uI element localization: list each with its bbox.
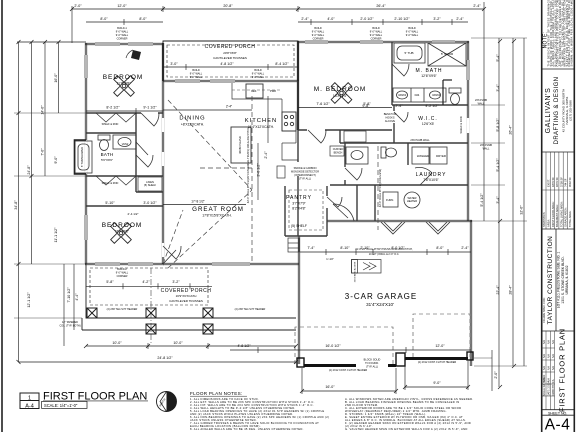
- svg-text:42'-0" DUAL PITCH (10/12+4/12): 42'-0" DUAL PITCH (10/12+4/12): [378, 169, 382, 207]
- dim row top 2 left: [86, 21, 163, 23]
- interior dim line dining: [163, 109, 252, 111]
- garage door header 1: [304, 364, 396, 367]
- svg-text:12'-0": 12'-0": [435, 344, 445, 348]
- svg-text:2'-4": 2'-4": [395, 104, 403, 108]
- svg-text:DRYER: DRYER: [436, 154, 446, 158]
- wall: hall west: [339, 130, 341, 143]
- mudroom bench: [330, 146, 344, 156]
- svg-text:2'-4": 2'-4": [456, 17, 464, 21]
- coat closet hall: [344, 131, 366, 142]
- mbath toilet: [449, 88, 461, 105]
- svg-text:2'-4": 2'-4": [461, 246, 469, 250]
- svg-text:24'-8 1/2": 24'-8 1/2": [157, 356, 173, 360]
- title block GALLIVAN'S logo section: [545, 77, 573, 145]
- gable truss markers: [381, 222, 450, 234]
- svg-text:FIRST FLOOR PLAN: FIRST FLOOR PLAN: [558, 328, 567, 412]
- svg-text:4'-2": 4'-2": [142, 280, 150, 284]
- svg-text:2'-0": 2'-0": [74, 4, 82, 8]
- svg-text:A-4: A-4: [545, 417, 571, 432]
- svg-text:5'6"X9'6": 5'6"X9'6": [101, 158, 113, 162]
- svg-text:DINING: DINING: [179, 116, 205, 122]
- wall: bath2 west: [344, 143, 346, 185]
- svg-text:AREA:: AREA:: [547, 219, 551, 227]
- svg-text:(2) 2X8 T&G SYP HEADER: (2) 2X8 T&G SYP HEADER: [235, 308, 266, 311]
- svg-text:5' TUB/SHOWER: 5' TUB/SHOWER: [80, 147, 84, 167]
- svg-text:G. VAULTED HEADER SPAN ON EXT: G. VAULTED HEADER SPAN ON EXTERIOR WALLS…: [345, 427, 468, 431]
- svg-text:CORNER: CORNER: [371, 38, 382, 41]
- dim row top 1: [72, 8, 484, 10]
- interior dim line great room: [163, 204, 246, 206]
- exterior wall: front wall at top porch: [163, 79, 299, 81]
- svg-text:EXIST.: EXIST.: [547, 179, 551, 187]
- svg-text:REF.: REF.: [251, 89, 257, 93]
- porch post 4: [146, 324, 156, 334]
- mbath vanities: [393, 88, 446, 102]
- porch post 1: [87, 308, 97, 318]
- garage front pier middle: [396, 353, 405, 366]
- right dim verticals: [498, 38, 500, 387]
- porch dashed ceiling: [90, 268, 208, 305]
- svg-text:9'-0" WALL: 9'-0" WALL: [406, 34, 419, 37]
- svg-text:4'-2 1/2": 4'-2 1/2": [425, 104, 439, 108]
- svg-text:SHELF & ROD: SHELF & ROD: [102, 123, 119, 126]
- kitchen upper cabinets dashed: [232, 89, 282, 91]
- svg-text:5'-8 1/2": 5'-8 1/2": [496, 118, 500, 132]
- svg-text:WASHER: WASHER: [417, 154, 429, 158]
- mbath tub: [394, 43, 425, 63]
- bath1 toilet: [98, 135, 110, 151]
- svg-text:7'8"X10'6": 7'8"X10'6": [423, 178, 439, 182]
- svg-text:9'-0" WALL: 9'-0" WALL: [252, 76, 265, 79]
- svg-text:8'-2 1/2": 8'-2 1/2": [106, 106, 120, 110]
- svg-text:28'-4": 28'-4": [509, 285, 513, 295]
- svg-text:26'-4": 26'-4": [376, 4, 386, 8]
- wall: mbath west: [391, 42, 393, 78]
- svg-text:N/A: N/A: [552, 340, 555, 344]
- wall: bath east: [135, 113, 137, 192]
- washer: [412, 147, 429, 164]
- dim line below bedroom2: [86, 285, 212, 287]
- svg-text:GARAGE AREA:: GARAGE AREA:: [564, 207, 568, 227]
- svg-text:36X60 ISLAND: 36X60 ISLAND: [238, 136, 242, 154]
- svg-text:D24: D24: [415, 93, 420, 97]
- porch stoop edge: [82, 329, 296, 331]
- svg-text:(TYP. ALL): (TYP. ALL): [366, 366, 378, 369]
- svg-text:2'-4": 2'-4": [301, 17, 309, 21]
- svg-text:31'4"X24'X10': 31'4"X24'X10': [366, 302, 394, 307]
- title block section dividers: [542, 68, 575, 70]
- svg-text:GALLIVAN'S: GALLIVAN'S: [545, 88, 552, 134]
- svg-text:2'-4": 2'-4": [226, 105, 232, 109]
- wall: linen: [136, 175, 163, 177]
- svg-text:1879 SF: 1879 SF: [555, 177, 559, 187]
- exterior wall: right wall: [466, 41, 468, 221]
- svg-text:16'-0 1/2": 16'-0 1/2": [325, 344, 341, 348]
- svg-text:(TYP. ALL): (TYP. ALL): [299, 178, 311, 181]
- bath1 tub nook bump: [85, 140, 88, 174]
- svg-text:2'-10": 2'-10": [360, 246, 370, 250]
- door bath2: [345, 168, 362, 180]
- svg-text:10'-0": 10'-0": [112, 341, 122, 345]
- svg-text:SCALE: 1/4"=1'-0": SCALE: 1/4"=1'-0": [44, 403, 78, 408]
- svg-text:3'-0 1/2": 3'-0 1/2": [143, 201, 157, 205]
- svg-text:(2) 2X12 CONT. FLITCH HEADER: (2) 2X12 CONT. FLITCH HEADER: [418, 361, 457, 364]
- block solid note bg: [356, 357, 388, 370]
- wall: mudroom east: [356, 185, 358, 221]
- svg-text:42'-0" DUAL PITCH (W/ CATHEDRA: 42'-0" DUAL PITCH (W/ CATHEDRAL TRUSS) 1…: [246, 127, 250, 203]
- svg-text:9'-0" WALL: 9'-0" WALL: [190, 76, 203, 79]
- svg-text:16'-0": 16'-0": [54, 73, 58, 83]
- svg-text:ALCOVE: ALCOVE: [385, 120, 395, 123]
- wall: pantry box: [284, 186, 286, 236]
- door laundry: [415, 167, 432, 185]
- svg-text:14'-0": 14'-0": [41, 105, 45, 115]
- svg-text:SHEET NO.: SHEET NO.: [548, 411, 567, 415]
- rotated inner labels: [80, 116, 463, 282]
- exterior wall: master wing left: [296, 41, 298, 130]
- svg-text:HEATER: HEATER: [407, 199, 417, 203]
- ceiling fan bedroom1: [114, 76, 135, 97]
- porch dashed ceiling: [167, 45, 294, 77]
- svg-text:5'-10": 5'-10": [105, 201, 115, 205]
- title block outer frame: [541, 0, 543, 432]
- svg-text:3'-2": 3'-2": [172, 280, 180, 284]
- svg-text:CORNER: CORNER: [117, 38, 128, 41]
- svg-text:3'-4": 3'-4": [496, 84, 500, 92]
- svg-text:(5) SHELF: (5) SHELF: [291, 224, 307, 228]
- svg-text:BASEMENT AREA:: BASEMENT AREA:: [555, 204, 559, 227]
- svg-text:17'8"X15'8"XCATH.: 17'8"X15'8"XCATH.: [202, 214, 232, 218]
- svg-text:8'-4 1/2": 8'-4 1/2": [275, 62, 289, 66]
- svg-text:3'-0": 3'-0": [170, 62, 178, 66]
- svg-text:DRAFTING & DESIGN: DRAFTING & DESIGN: [554, 77, 560, 145]
- exterior wall: master wing top: [298, 40, 469, 42]
- svg-text:11'-1 1/2": 11'-1 1/2": [54, 227, 58, 243]
- svg-text:4'-4": 4'-4": [75, 293, 79, 301]
- svg-text:9'-0": 9'-0": [54, 156, 58, 164]
- door bedroom1: [141, 113, 159, 126]
- svg-text:CORNER: CORNER: [313, 38, 324, 41]
- wall: bedroom2 closet top: [86, 175, 136, 177]
- linen shelf box: [138, 177, 162, 191]
- svg-text:PANTRY: PANTRY: [286, 195, 312, 201]
- svg-text:11'X10'8": 11'X10'8": [115, 230, 130, 234]
- svg-text:N/A: N/A: [548, 366, 551, 370]
- svg-text:2X6 PLMB WALL: 2X6 PLMB WALL: [410, 139, 430, 142]
- svg-text:CORNER: CORNER: [117, 275, 128, 278]
- svg-text:+8'X12'XCATH.: +8'X12'XCATH.: [181, 123, 204, 127]
- svg-text:26'-4": 26'-4": [509, 125, 513, 135]
- bath1 tub: [75, 141, 92, 173]
- svg-text:4'-0": 4'-0": [327, 17, 335, 21]
- svg-text:TOTAL AREA:: TOTAL AREA:: [568, 210, 572, 227]
- svg-text:(5) SHELF: (5) SHELF: [144, 183, 157, 187]
- svg-text:BEDROOM: BEDROOM: [103, 74, 144, 81]
- svg-text:3'7"X7'9": 3'7"X7'9": [292, 202, 306, 206]
- dim row top 2 right: [298, 21, 468, 23]
- exterior wall: garage left: [297, 236, 299, 364]
- svg-text:32'-0": 32'-0": [520, 205, 524, 215]
- svg-text:1: 1: [28, 396, 31, 402]
- svg-text:PWR: PWR: [270, 89, 276, 93]
- bottom porch dims: [86, 345, 296, 347]
- svg-text:4502 SF: 4502 SF: [568, 177, 572, 187]
- wall: mbath vanity wall: [392, 104, 468, 106]
- porch slab edge: [86, 264, 296, 318]
- dimension arrow ticks: [17, 7, 517, 393]
- svg-text:SHOWN. ALL WORK PER LOCAL CODE: SHOWN. ALL WORK PER LOCAL CODE AMENDMENT…: [570, 0, 574, 67]
- wall: master bedroom south: [298, 129, 392, 131]
- door mudroom-garage: [333, 204, 354, 221]
- svg-text:N/A: N/A: [543, 366, 546, 370]
- svg-text:9'-8": 9'-8": [362, 104, 370, 108]
- svg-text:11'X10'8": 11'X10'8": [117, 82, 132, 86]
- svg-text:12'-1 1/2": 12'-1 1/2": [27, 292, 31, 308]
- svg-text:5' TUB: 5' TUB: [404, 51, 413, 55]
- wall: mech west: [374, 185, 376, 221]
- title block client / project section: [542, 236, 569, 325]
- svg-text:24'-8": 24'-8": [27, 165, 31, 175]
- svg-text:1879 SF: 1879 SF: [551, 177, 555, 187]
- svg-text:WALL: WALL: [483, 148, 490, 151]
- svg-text:3'-2": 3'-2": [433, 17, 441, 21]
- svg-text:17'-8 1/2": 17'-8 1/2": [191, 200, 204, 204]
- door mbath: [392, 64, 409, 76]
- mbath shower: [428, 43, 466, 66]
- svg-text:2'-0": 2'-0": [494, 371, 498, 379]
- wall: wic west: [393, 105, 395, 143]
- north arrow: [157, 392, 177, 412]
- svg-text:VAN2: VAN2: [122, 142, 129, 146]
- svg-text:8'-0": 8'-0": [436, 246, 444, 250]
- door master bedroom: [308, 130, 326, 143]
- svg-text:SHELF & ROD: SHELF & ROD: [459, 116, 463, 133]
- svg-text:VAN63: VAN63: [432, 93, 441, 97]
- door pantry: [327, 197, 342, 207]
- bath2 vanity: [346, 147, 368, 164]
- furnace: [383, 192, 398, 207]
- wall: bedroom2 north: [86, 205, 163, 207]
- svg-text:FIRST FLOOR AREA:: FIRST FLOOR AREA:: [551, 201, 555, 227]
- porch bay centerline: [150, 268, 152, 344]
- svg-text:2'-4 1/2": 2'-4 1/2": [128, 212, 139, 216]
- svg-text:N/A: N/A: [543, 378, 546, 382]
- svg-text:BENCH: BENCH: [334, 152, 343, 155]
- svg-text:8'-0": 8'-0": [139, 17, 147, 21]
- svg-text:22X30 ATTIC ACCESS: 22X30 ATTIC ACCESS: [354, 261, 357, 282]
- kitchen island: [231, 127, 251, 163]
- svg-text:GREAT ROOM: GREAT ROOM: [192, 206, 244, 213]
- svg-text:TAYLOR CONSTRUCTION: TAYLOR CONSTRUCTION: [547, 236, 554, 325]
- title block statistics table: [542, 152, 575, 229]
- svg-text:34'-8": 34'-8": [14, 200, 18, 210]
- ceiling fan bedroom2: [111, 223, 132, 244]
- drawing tag box: [20, 393, 39, 409]
- svg-text:CANTILEVER TRUSSES: CANTILEVER TRUSSES: [213, 56, 247, 60]
- wall: wic south / plumb wall: [340, 142, 468, 144]
- smoke detector: [277, 166, 285, 178]
- svg-text:COVERED PORCH: COVERED PORCH: [205, 44, 256, 50]
- svg-text:7'-10 1/2": 7'-10 1/2": [67, 287, 71, 303]
- svg-text:(2) 2X12 CONT. FLITCH HEADER: (2) 2X12 CONT. FLITCH HEADER: [329, 369, 368, 372]
- garage door track dashed left: [295, 327, 393, 364]
- svg-text:10 1/2" (INSUL & 2'-0" O.C.: 10 1/2" (INSUL & 2'-0" O.C.: [369, 253, 400, 256]
- exterior wall: left wing top: [85, 42, 163, 44]
- exterior wall: left wing bottom: [85, 262, 164, 264]
- left dim verticals: [18, 42, 20, 362]
- closet bifold doors: [96, 113, 136, 185]
- kitchen fridge: [246, 84, 263, 98]
- svg-text:11'4"X12'XCATH.: 11'4"X12'XCATH.: [248, 125, 274, 129]
- svg-text:2'-4": 2'-4": [264, 151, 268, 159]
- wall: closet shelf row: [86, 132, 136, 134]
- wall: bedroom1 south / closet: [86, 112, 163, 114]
- garage bottom dims: [230, 349, 471, 351]
- svg-text:N/A: N/A: [543, 354, 546, 358]
- svg-text:8'-10": 8'-10": [340, 246, 350, 250]
- svg-text:WALL: WALL: [478, 103, 485, 106]
- svg-text:STATISTICS: STATISTICS: [542, 212, 546, 227]
- wall: kitchen east: [297, 81, 299, 143]
- wall: laundry south: [330, 184, 468, 186]
- svg-text:N/A: N/A: [548, 378, 551, 382]
- ceiling fan master bedroom: [331, 83, 352, 104]
- svg-text:16'-0": 16'-0": [325, 385, 335, 389]
- title block revision table: [542, 331, 555, 410]
- door wic: [394, 112, 408, 122]
- svg-text:N/A: N/A: [543, 340, 546, 344]
- svg-text:N/A: N/A: [552, 354, 555, 358]
- porch roof edge: [163, 41, 298, 81]
- svg-text:8. ALL ANGLED WALLS ARE TO BE: 8. ALL ANGLED WALLS ARE TO BE 45 DEG. UN…: [190, 427, 304, 431]
- title block NOTE: section: [543, 32, 549, 49]
- exterior wall: garage right: [469, 220, 471, 366]
- svg-text:CANTILEVER TRUSSES: CANTILEVER TRUSSES: [169, 299, 203, 303]
- svg-text:VAN63: VAN63: [398, 93, 407, 97]
- svg-text:(2) 2X8 T&G SYP HEADER: (2) 2X8 T&G SYP HEADER: [107, 308, 138, 311]
- svg-text:20'-8": 20'-8": [223, 4, 233, 8]
- dryer: [430, 147, 447, 164]
- exterior wall: corridor west wall: [161, 43, 163, 264]
- svg-text:2'-4": 2'-4": [473, 4, 481, 8]
- svg-text:10'-0": 10'-0": [173, 341, 183, 345]
- svg-text:5'-4 1/2": 5'-4 1/2": [480, 193, 484, 207]
- door bath1: [136, 142, 153, 167]
- svg-text:N/A: N/A: [548, 354, 551, 358]
- svg-text:N/A: N/A: [552, 366, 555, 370]
- svg-text:9'-1 1/2": 9'-1 1/2": [143, 106, 157, 110]
- svg-text:2'-10 1/2": 2'-10 1/2": [394, 17, 410, 21]
- svg-text:4'-8 1/2": 4'-8 1/2": [237, 344, 251, 348]
- svg-text:FLOOR PLAN NOTES:: FLOOR PLAN NOTES:: [190, 391, 243, 396]
- svg-text:(217) 202-5698: (217) 202-5698: [569, 100, 573, 121]
- porch post 2: [146, 308, 156, 318]
- svg-text:SCALE: AS NOTED: SCALE: AS NOTED: [543, 374, 546, 396]
- svg-text:5' SHWR: 5' SHWR: [441, 52, 454, 56]
- wall: hall east of great room: [297, 143, 299, 236]
- svg-text:5'-4": 5'-4": [496, 54, 500, 62]
- exterior wall: great room rear: [163, 262, 299, 264]
- svg-text:SHELF & ROD: SHELF & ROD: [102, 182, 119, 185]
- closet + wall note tiny stacks: [59, 27, 492, 372]
- interior door gaps: [141, 111, 394, 257]
- svg-text:8'-0 1/2": 8'-0 1/2": [391, 246, 405, 250]
- svg-text:20'8"X6'8": 20'8"X6'8": [223, 51, 237, 55]
- svg-text:16'9"X6'XCATH: 16'9"X6'XCATH: [176, 294, 197, 298]
- left inner verticals bottom: [63, 264, 65, 346]
- svg-text:BATH: BATH: [101, 152, 114, 157]
- interior dim verticals great room: [257, 143, 259, 200]
- svg-text:12'-0": 12'-0": [117, 4, 127, 8]
- svg-text:2'-0 1/2": 2'-0 1/2": [360, 17, 374, 21]
- svg-text:7'-6 1/2": 7'-6 1/2": [316, 102, 330, 106]
- svg-text:4'-8 1/2": 4'-8 1/2": [220, 62, 234, 66]
- svg-text:3-CAR GARAGE: 3-CAR GARAGE: [345, 292, 417, 301]
- interior dim line bedroom1 bottom: [86, 110, 163, 112]
- svg-text:M. BEDROOM: M. BEDROOM: [314, 86, 367, 93]
- interior dim line master bedroom: [298, 107, 392, 109]
- garage door header 2: [405, 357, 468, 360]
- garage door track dashed right: [413, 314, 470, 357]
- dim porch row: [163, 66, 298, 68]
- svg-text:TOTAL LIVING AREA:: TOTAL LIVING AREA:: [559, 201, 563, 227]
- svg-text:12'6"X5': 12'6"X5': [422, 122, 435, 126]
- svg-text:N/A: N/A: [548, 340, 551, 344]
- porch post 3: [203, 308, 213, 318]
- exterior wall: left wing left: [84, 43, 86, 264]
- svg-text:A-4: A-4: [25, 404, 34, 410]
- svg-text:KITCHEN: KITCHEN: [245, 118, 277, 124]
- svg-text:13'X14'4": 13'X14'4": [333, 94, 348, 98]
- svg-text:COL. (TYP. BOTH): COL. (TYP. BOTH): [59, 325, 80, 328]
- door bedroom2: [163, 246, 181, 264]
- sheet left border: [1, 0, 3, 432]
- svg-text:DRWN BY: N/A: DRWN BY: N/A: [552, 379, 555, 396]
- svg-text:3'-4": 3'-4": [496, 196, 500, 204]
- attic access: [352, 260, 382, 274]
- water heater: [404, 192, 420, 208]
- porch post 5: [203, 324, 213, 334]
- svg-text:22'-4": 22'-4": [496, 285, 500, 295]
- svg-text:7'-4": 7'-4": [307, 246, 315, 250]
- svg-text:8'-0": 8'-0": [100, 17, 108, 21]
- mbath toilet nook wall: [443, 80, 452, 105]
- svg-text:BEDROOM: BEDROOM: [102, 222, 143, 229]
- rotated dim text left/right columns: [14, 54, 524, 379]
- svg-text:FURN.: FURN.: [386, 198, 394, 202]
- garage front pier right: [467, 352, 473, 360]
- svg-text:FIGURE SPEC. FOR:: FIGURE SPEC. FOR:: [542, 297, 546, 322]
- svg-text:8'2"X4'8": 8'2"X4'8": [292, 207, 306, 211]
- wall: bath2 / laundry divider: [407, 143, 409, 165]
- svg-text:1'-10": 1'-10": [326, 257, 334, 261]
- svg-text:5'-4 1/2": 5'-4 1/2": [496, 158, 500, 172]
- svg-text:5'-8": 5'-8": [106, 280, 114, 284]
- garage front pier left: [297, 358, 304, 367]
- svg-text:URBANA, IL 61802: URBANA, IL 61802: [565, 265, 569, 294]
- door leaf dark bedroom1: [131, 50, 141, 60]
- svg-text:3758 SF: 3758 SF: [559, 177, 563, 187]
- svg-text:9'-0": 9'-0": [433, 381, 441, 385]
- svg-text:3'-0 1/2": 3'-0 1/2": [257, 163, 261, 177]
- NOTE paragraph fine print (rotated): [547, 0, 574, 67]
- svg-text:744 SF: 744 SF: [564, 178, 568, 187]
- svg-text:12'6"X9'6": 12'6"X9'6": [421, 74, 437, 78]
- left dim column connector: [17, 41, 86, 43]
- garage steps: [288, 238, 299, 252]
- kitchen range: [282, 112, 296, 131]
- pantry shelves dashed: [289, 190, 323, 230]
